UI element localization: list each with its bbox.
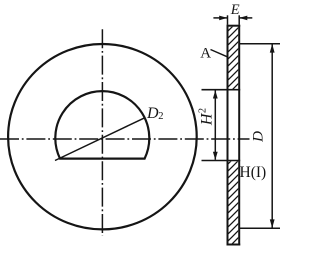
svg-text:H: H [199, 112, 216, 126]
strip bottom edge [227, 244, 241, 246]
D bottom extension line [240, 227, 280, 229]
D bottom arrow [270, 219, 275, 228]
D2 diameter line [55, 118, 145, 161]
horizontal centerline [0, 138, 250, 140]
svg-text:2: 2 [158, 111, 163, 122]
E dim line right with arrow [239, 17, 252, 19]
vertical centerline [101, 29, 103, 236]
svg-text:H(I): H(I) [240, 164, 267, 181]
strip top edge [227, 25, 241, 27]
D-shaped hole outline [55, 91, 149, 158]
side view: strip left edge [227, 25, 229, 246]
H2 top arrow [213, 90, 218, 98]
H2 dimension line [214, 90, 216, 159]
label H2 rotated [197, 108, 215, 126]
big circle (front view outline) [8, 44, 197, 229]
top hatched section [228, 27, 238, 89]
svg-text:2: 2 [197, 108, 208, 113]
hole bottom line with extension [202, 160, 241, 162]
svg-text:E: E [230, 2, 240, 18]
svg-text:A: A [200, 45, 211, 61]
svg-text:D: D [146, 105, 159, 122]
D top extension line [240, 43, 280, 45]
A leader line [211, 50, 228, 57]
svg-text:D: D [251, 131, 267, 143]
E extension lines [227, 15, 229, 24]
side view: strip right edge [238, 25, 240, 246]
D top arrow [270, 44, 275, 53]
label D rotated [251, 131, 267, 143]
D dimension line [271, 44, 273, 228]
E dim line left with arrow [213, 17, 227, 19]
hole top line with extension [202, 89, 241, 91]
H2 bottom arrow [213, 152, 218, 160]
bottom hatched section [228, 161, 238, 243]
